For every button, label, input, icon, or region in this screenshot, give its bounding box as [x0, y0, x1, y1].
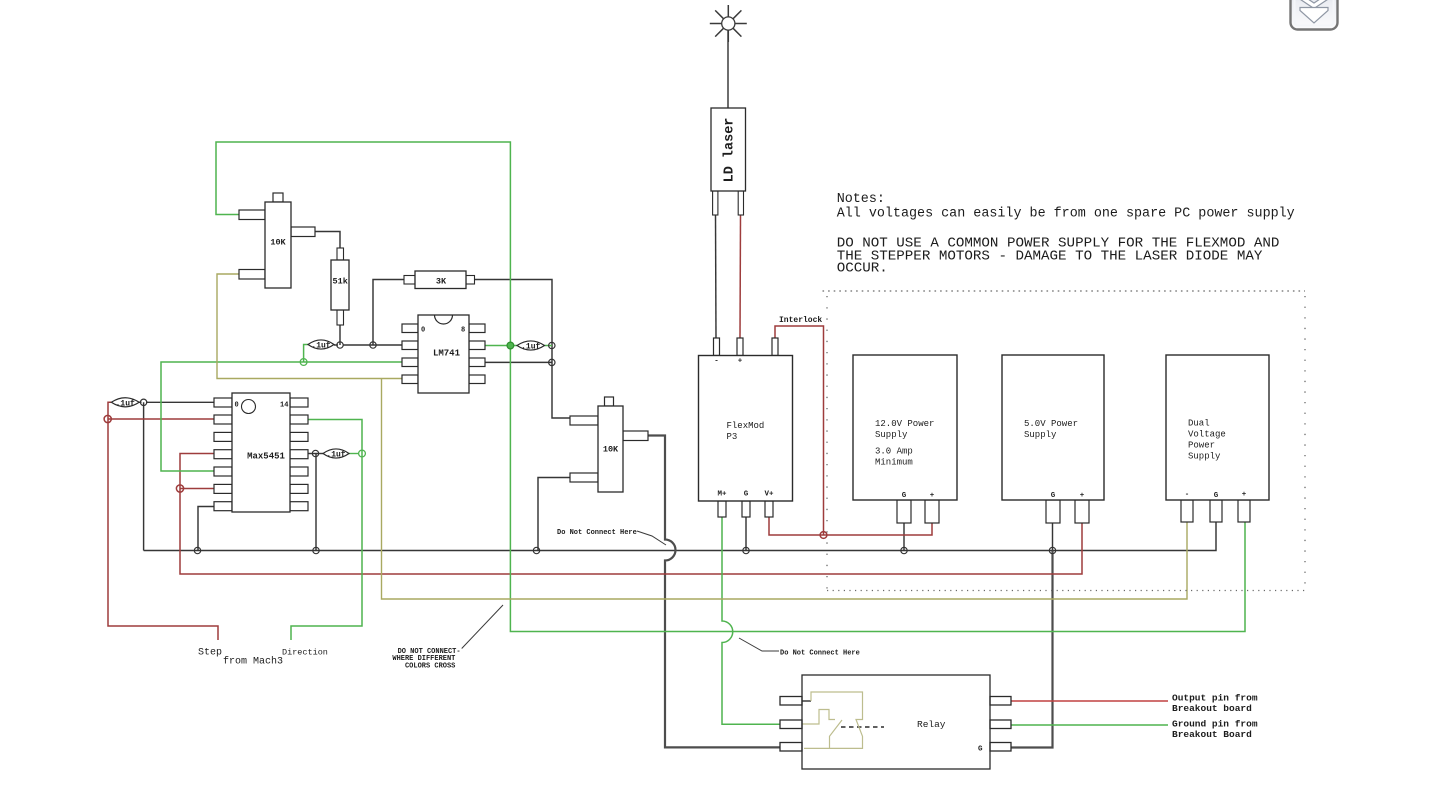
svg-text:3K: 3K [436, 277, 447, 287]
svg-text:.1uf: .1uf [116, 399, 135, 408]
node: cap C3 / x552 junction [549, 342, 555, 348]
wire green: cap C4 right tip to green node [349, 453, 359, 455]
svg-text:FlexMod: FlexMod [727, 421, 765, 431]
wire: 10K2 lower-left pin to ground bus [538, 478, 570, 551]
resistor R2 51k [331, 248, 349, 325]
node: ground bus junction at FlexMod G [743, 547, 749, 553]
wire: pointer to do-not-connect hop 1 [637, 531, 666, 545]
FlexMod P3 driver [699, 338, 793, 517]
node red: pin6 net junction [176, 485, 183, 492]
wire green: big loop 10K1 top pin to dual supply + pin [216, 142, 1245, 632]
svg-text:Supply: Supply [875, 430, 908, 440]
node red: interlock / V+ junction [820, 532, 827, 539]
svg-text:3.0 Amp: 3.0 Amp [875, 447, 913, 457]
wire: 3K right pin to 10K2 upper-left pin [474, 280, 570, 419]
svg-text:Ground pin from: Ground pin from [1172, 719, 1258, 730]
svg-text:Breakout Board: Breakout Board [1172, 729, 1252, 740]
wire red: FlexMod V+ to 12V supply + pin [769, 517, 932, 535]
wire red: LD laser anode to FlexMod + pin [739, 215, 742, 338]
svg-text:Supply: Supply [1188, 452, 1221, 462]
node: ground bus junction at x316 [313, 547, 319, 553]
digital pot U1 Max5451 [214, 393, 308, 512]
node: 51k / cap C2 junction [337, 342, 343, 348]
wire: laser sun stem [727, 30, 729, 108]
svg-text:-: - [714, 358, 719, 366]
wire green: relay ground to breakout board [1011, 724, 1168, 726]
wire: relay contact dashed line [841, 726, 884, 728]
wire: cap C1 junction to Max5451 pin1 [146, 401, 214, 403]
wire: 5V supply G pin down [1052, 523, 1054, 551]
wire: 51k bottom to node A [339, 325, 341, 345]
dual voltage power supply [1166, 355, 1269, 522]
node: feedback tap junction [370, 342, 376, 348]
wire red: cap C1 left tip riser and Step lead [108, 402, 218, 640]
LD laser module [711, 108, 746, 215]
node: op-amp pin3 / x552 junction [549, 359, 555, 365]
wire: op-amp pin3 right to node x552 [485, 361, 552, 363]
svg-text:10K: 10K [603, 445, 619, 455]
svg-text:Voltage: Voltage [1188, 430, 1226, 440]
node: ground bus junction at Max pin7 [194, 547, 200, 553]
node red: step net junction [104, 415, 111, 422]
op-amp U2 LM741 [402, 315, 485, 393]
svg-text:Interlock: Interlock [779, 316, 822, 325]
wire red: relay output to breakout board [1011, 700, 1168, 702]
svg-text:10K: 10K [270, 238, 286, 248]
wire green: node to Max5451 pin5 [161, 362, 304, 471]
wire: cap C2 right tip stub [334, 344, 338, 346]
wire olive: 10K1 lower pin to op-amp pin4 [217, 274, 402, 379]
wire red: Max5451 pin4 feed [180, 454, 214, 489]
potentiometer R1 10K [239, 193, 315, 288]
svg-text:5.0V Power: 5.0V Power [1024, 419, 1078, 429]
wire: node A branch up to 3K left pin [373, 280, 404, 346]
svg-text:Notes:: Notes: [837, 192, 885, 207]
node green: cap C4 / direction net junction [359, 450, 366, 457]
wire: Max5451 pin4 junction down to ground bus [315, 454, 317, 551]
svg-text:P3: P3 [727, 432, 738, 442]
svg-text:+: + [738, 358, 743, 366]
svg-text:V+: V+ [764, 491, 774, 499]
svg-text:Minimum: Minimum [875, 458, 913, 468]
wire: ground bus horizontal [144, 522, 1216, 551]
wire green: Max5451 pin2 right to Direction lead [291, 420, 362, 641]
svg-text:+: + [930, 492, 935, 500]
resistor R3 3K [404, 271, 475, 289]
dotted border around power supplies [823, 291, 1306, 591]
svg-text:12.0V Power: 12.0V Power [875, 419, 934, 429]
node green: filled junction on big loop at op-amp output [507, 342, 514, 349]
svg-text:Step: Step [198, 648, 222, 659]
5V power supply [1002, 355, 1104, 523]
svg-text:0: 0 [421, 327, 425, 335]
node: ground bus junction at x536 [533, 547, 539, 553]
svg-text:Power: Power [1188, 441, 1215, 451]
capacitor C1 .1uf [111, 398, 139, 409]
capacitor C4 .1uf [323, 449, 349, 460]
relay K1 box [780, 675, 1011, 769]
wire: 10K1 right pin to 51k top [315, 232, 340, 249]
svg-text:Dual: Dual [1188, 419, 1210, 429]
svg-text:Do Not Connect Here: Do Not Connect Here [780, 650, 860, 658]
svg-text:.1uf: .1uf [326, 451, 345, 460]
wire red: interlock loop [775, 326, 824, 535]
node: ground bus junction at 12V G [901, 547, 907, 553]
wire: 12V supply G pin to ground bus [903, 523, 905, 551]
wire: heavy 5V G continues down to relay right pin3 [1011, 551, 1053, 748]
potentiometer R4 10K [570, 397, 648, 492]
node green: cap C2 lower junction [300, 359, 307, 366]
wire olive: branch down to dual supply - pin [382, 379, 1188, 600]
node: ground bus junction at 5V G [1049, 547, 1055, 553]
svg-text:THE STEPPER MOTORS - DAMAGE TO: THE STEPPER MOTORS - DAMAGE TO THE LASER… [837, 249, 1263, 265]
svg-text:-: - [1185, 491, 1190, 499]
capacitor C3 .1uf [517, 341, 545, 352]
wire: heavy 10K2 right pin down to relay pin3 with hop over ground bus [648, 436, 780, 748]
laser beam sun symbol [710, 5, 747, 42]
wire: Max5451 pin7 to ground bus [198, 507, 214, 551]
label: relay output pin note [1172, 693, 1258, 741]
svg-text:0: 0 [235, 402, 239, 410]
svg-text:G: G [978, 746, 983, 754]
svg-text:COLORS CROSS: COLORS CROSS [405, 662, 455, 670]
wire: Max5451 pin4 to cap C4 [308, 453, 323, 455]
svg-text:G: G [1051, 492, 1056, 500]
svg-text:Direction: Direction [282, 648, 328, 658]
svg-text:Output pin from: Output pin from [1172, 693, 1258, 704]
wire: ground bus left riser [143, 402, 145, 550]
download button icon (top right, clipped) [1291, 0, 1338, 30]
svg-text:Breakout board: Breakout board [1172, 703, 1252, 714]
wire: pointer to do-not-connect hop 2 [739, 638, 779, 651]
wire red: node to Max5451 pin2 [108, 418, 214, 420]
label: do not connect where colors cross [392, 648, 460, 670]
wire green: cap C3 right tip to node x552 [545, 345, 553, 347]
svg-text:.1uf: .1uf [311, 342, 330, 351]
12V power supply [853, 355, 957, 523]
svg-text:All voltages can easily be fro: All voltages can easily be from one spar… [837, 207, 1295, 222]
svg-text:G: G [1214, 492, 1219, 500]
svg-text:51k: 51k [333, 277, 348, 287]
svg-text:from Mach3: from Mach3 [223, 656, 283, 668]
svg-text:14: 14 [280, 402, 288, 410]
svg-text:Do Not Connect Here: Do Not Connect Here [557, 529, 637, 537]
wire green: node to op-amp pin3 left [304, 361, 402, 363]
node: cap C1 / Max5451 pin1 junction [140, 399, 146, 405]
svg-text:M+: M+ [717, 491, 727, 499]
svg-text:LD laser: LD laser [723, 118, 738, 183]
wire green: op-amp pin2 right to node [485, 345, 517, 347]
relay K1 coil symbol [803, 692, 863, 748]
svg-text:G: G [902, 492, 907, 500]
wire: LD laser cathode to FlexMod - pin [715, 215, 718, 338]
wire: FlexMod G pin to ground bus [745, 517, 747, 551]
wire: node A to op-amp pin2 left [343, 344, 402, 346]
svg-text:Supply: Supply [1024, 430, 1057, 440]
svg-text:OCCUR.: OCCUR. [837, 261, 888, 277]
svg-text:.1uf: .1uf [521, 343, 540, 352]
wire red: supply bus to 5V + pin [180, 489, 1082, 575]
wire: relay internal stub pin1 [802, 700, 811, 702]
label: notes block [837, 192, 1295, 277]
node: Max5451 pin4 / cap C4 junction [312, 450, 318, 456]
wire green: FlexMod M+ down to relay pin2 with hop over green bus [722, 517, 780, 724]
svg-text:8: 8 [461, 327, 465, 335]
svg-text:Relay: Relay [917, 719, 946, 730]
wire red: Max5451 pin6 feed [180, 488, 214, 490]
svg-text:G: G [744, 491, 749, 499]
svg-text:Max5451: Max5451 [247, 452, 285, 462]
wire green: cap C2 left tip down to node [304, 345, 308, 363]
svg-text:+: + [1080, 492, 1085, 500]
svg-text:+: + [1242, 491, 1247, 499]
wire: cap C1 right tip stub [139, 401, 142, 403]
capacitor C2 .1uf [308, 340, 334, 351]
wire: pointer for colors-cross note [462, 605, 503, 649]
svg-text:LM741: LM741 [433, 349, 461, 359]
